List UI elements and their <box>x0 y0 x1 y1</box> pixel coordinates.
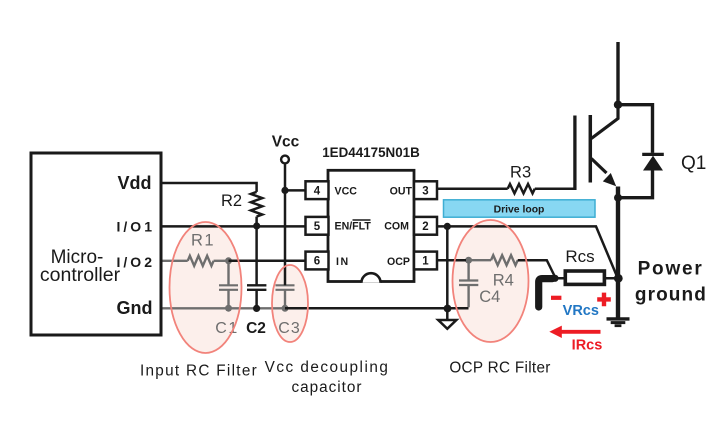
svg-text:Vdd: Vdd <box>118 173 152 193</box>
svg-text:Drive loop: Drive loop <box>494 204 545 215</box>
svg-text:C4: C4 <box>479 288 500 306</box>
svg-text:1ED44175N01B: 1ED44175N01B <box>322 145 420 160</box>
svg-text:C3: C3 <box>278 320 300 337</box>
svg-text:ground: ground <box>635 285 707 306</box>
svg-text:Input RC Filter: Input RC Filter <box>140 363 258 380</box>
svg-text:VRcs: VRcs <box>563 303 599 319</box>
svg-text:OCP RC Filter: OCP RC Filter <box>449 360 550 377</box>
svg-text:IN: IN <box>336 256 350 268</box>
svg-text:R4: R4 <box>493 272 514 290</box>
svg-text:5: 5 <box>314 221 321 233</box>
svg-text:EN/FLT: EN/FLT <box>335 221 372 233</box>
svg-text:Gnd: Gnd <box>117 298 153 318</box>
svg-text:3: 3 <box>422 185 428 197</box>
svg-text:1: 1 <box>422 256 429 268</box>
svg-text:COM: COM <box>384 221 409 233</box>
svg-text:OUT: OUT <box>390 186 413 198</box>
svg-text:R3: R3 <box>510 163 531 181</box>
svg-text:R1: R1 <box>191 231 215 249</box>
svg-text:6: 6 <box>314 256 320 268</box>
svg-text:C2: C2 <box>246 320 266 337</box>
svg-text:IRcs: IRcs <box>572 338 603 354</box>
svg-text:controller: controller <box>40 264 121 286</box>
svg-text:2: 2 <box>422 221 428 233</box>
svg-text:VCC: VCC <box>335 186 358 198</box>
svg-text:I/O2: I/O2 <box>117 254 155 270</box>
svg-text:Rcs: Rcs <box>565 247 594 266</box>
svg-text:Vcc decoupling: Vcc decoupling <box>265 359 390 376</box>
svg-text:Q1: Q1 <box>681 153 706 174</box>
svg-text:Vcc: Vcc <box>272 134 300 151</box>
svg-text:Power: Power <box>638 259 704 280</box>
svg-text:capacitor: capacitor <box>291 379 362 396</box>
svg-text:I/O1: I/O1 <box>117 219 155 235</box>
svg-text:R2: R2 <box>221 192 242 210</box>
svg-text:4: 4 <box>314 185 321 197</box>
svg-text:OCP: OCP <box>387 256 410 268</box>
